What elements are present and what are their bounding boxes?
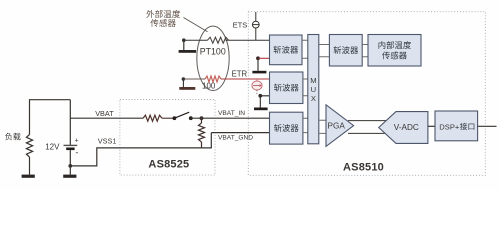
ground (100R): [179, 79, 195, 90]
wire battery top: [69, 100, 71, 145]
wire MUX to PGA: [319, 120, 326, 133]
ground (chopper1 input): [252, 58, 266, 73]
svg-text:-: -: [75, 148, 78, 158]
wire VBAT: [70, 117, 143, 119]
mux U4: [308, 35, 319, 144]
op-amp PGA: [326, 105, 354, 147]
svg-text:ETR: ETR: [232, 70, 248, 79]
ground (PT100): [179, 40, 197, 53]
svg-text:M: M: [310, 76, 316, 85]
wire chopper2 lower input: [260, 95, 269, 97]
internal temp sensor block: [368, 35, 421, 67]
svg-text:VBAT_GND: VBAT_GND: [218, 135, 253, 142]
wire DSP output: [478, 125, 497, 127]
wire top rail: [30, 100, 71, 135]
node battery/VSS junction: [68, 164, 72, 168]
wire chopper3 to MUX: [303, 118, 308, 132]
wire 100R left: [183, 78, 205, 80]
svg-text:12V: 12V: [45, 143, 60, 152]
wire resistor to switch: [162, 117, 174, 119]
ground (load): [22, 175, 35, 178]
svg-text:U: U: [311, 85, 316, 94]
ground (chopper2 input): [254, 96, 268, 110]
wire VBAT_GND: [211, 132, 269, 134]
svg-text:VSS1: VSS1: [98, 137, 117, 146]
current source I1 (ETS): [252, 12, 259, 40]
wire V-ADC to DSP: [428, 125, 435, 127]
svg-text:V-ADC: V-ADC: [394, 123, 419, 132]
wire VSS1 return path: [70, 133, 211, 166]
load label 负载: [5, 133, 21, 141]
wire VBAT_IN: [191, 117, 270, 119]
DSP interface block DSP+接口: [435, 111, 478, 141]
battery B1 12V: [64, 137, 79, 157]
svg-text:AS8510: AS8510: [343, 162, 384, 174]
node ETR ground junction: [182, 77, 186, 81]
load resistor: [26, 135, 32, 158]
pointer line to sensor: [184, 18, 208, 32]
chopper U2: [270, 72, 303, 104]
svg-text:DSP+: DSP+: [439, 122, 460, 131]
chopper U5: [329, 35, 362, 67]
svg-text:PT100: PT100: [200, 46, 226, 56]
svg-text:PGA: PGA: [328, 122, 346, 131]
resistor 100R: [205, 76, 221, 82]
node chopper2 lower input junction: [258, 94, 262, 98]
node ETS ground junction: [182, 38, 186, 42]
AS8510 dashed module box: [248, 12, 485, 176]
resistor R sense vertical: [201, 118, 203, 123]
resistor R shunt (AS8525): [143, 115, 162, 121]
wire dotted source to node: [256, 90, 258, 95]
svg-text:VBAT: VBAT: [95, 109, 114, 118]
node chopper1 lower input junction: [256, 56, 260, 60]
wire battery bottom: [69, 150, 71, 175]
wire ETR: [221, 78, 270, 80]
wire chopper2 to MUX: [303, 79, 308, 96]
node sense divider junction: [200, 116, 204, 120]
sensor ellipse: [197, 26, 229, 90]
AS8525 dashed module box: [120, 100, 215, 176]
svg-text:X: X: [311, 94, 316, 103]
svg-text:+: +: [75, 137, 79, 144]
wire chopper4 to internal sensor: [362, 45, 368, 57]
wire PGA to V-ADC differential pair: [348, 121, 389, 134]
wire MUX to chopper4: [319, 45, 330, 57]
svg-text:VBAT_IN: VBAT_IN: [218, 110, 245, 117]
current source I2 (ETR, red): [252, 79, 262, 90]
svg-text:AS8525: AS8525: [148, 158, 189, 170]
svg-text:ETS: ETS: [233, 20, 248, 29]
V-ADC block: [379, 112, 428, 144]
external temp sensor label 外部温度/传感器: [146, 10, 180, 27]
switch S1: [173, 112, 193, 120]
wire load to ground: [29, 157, 31, 175]
wire PT100 left: [184, 39, 208, 41]
wire chopper1 lower input: [258, 57, 270, 59]
chopper U3: [270, 112, 303, 144]
wire chopper1 to MUX: [302, 40, 308, 58]
ground (battery): [63, 175, 76, 178]
chopper U1: [270, 35, 303, 65]
wire ETS: [226, 39, 270, 41]
svg-text:100: 100: [202, 81, 216, 90]
resistor PT100: [208, 37, 229, 43]
